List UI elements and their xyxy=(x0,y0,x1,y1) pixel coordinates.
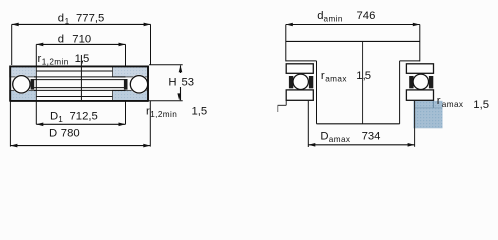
H witness line bottom xyxy=(148,100,182,102)
dimension d_amin line xyxy=(286,23,420,27)
left ball xyxy=(13,76,30,93)
top raceway line xyxy=(34,79,126,81)
shaft washer left (white) xyxy=(286,64,313,74)
dimension D_amax label xyxy=(320,131,380,145)
shoulder bottom line left xyxy=(286,60,317,62)
svg-text:amin: amin xyxy=(324,15,343,24)
svg-text:780: 780 xyxy=(61,128,80,140)
shaft column bottom line xyxy=(317,123,400,125)
housing fillet detail square (blue) xyxy=(413,101,442,129)
right ball xyxy=(130,76,147,93)
housing washer left (white) xyxy=(286,90,313,100)
svg-text:d: d xyxy=(58,13,64,25)
shaft column right edge xyxy=(399,61,401,124)
right cage bar xyxy=(124,79,128,90)
svg-text:53: 53 xyxy=(182,76,195,88)
cage bars left bearing xyxy=(289,76,293,88)
housing surface line under square xyxy=(415,107,443,109)
D extension line right xyxy=(149,101,151,147)
ball left bearing xyxy=(293,74,308,89)
bottom raceway line xyxy=(34,87,126,89)
svg-text:1,5: 1,5 xyxy=(473,99,489,111)
svg-text:1: 1 xyxy=(58,115,63,124)
svg-text:amax: amax xyxy=(325,75,347,84)
svg-text:1,2min: 1,2min xyxy=(42,58,69,67)
dimension d1 label xyxy=(58,13,104,27)
label r_amax 1,5 (bottom right) xyxy=(437,95,489,111)
svg-text:r: r xyxy=(437,95,441,107)
D1 extension line right lower xyxy=(125,101,127,124)
shaft washer right (white) xyxy=(406,64,433,74)
label r1,2min 1,5 (bottom right) xyxy=(146,105,207,119)
r1,2 leader line xyxy=(80,55,82,101)
d extension line right upper xyxy=(125,44,127,65)
dimension D1 label xyxy=(50,111,98,125)
housing boss edge right / D_amax extension xyxy=(414,101,416,147)
svg-text:1,5: 1,5 xyxy=(192,105,208,117)
svg-text:712,5: 712,5 xyxy=(70,111,98,123)
svg-text:D: D xyxy=(320,131,328,143)
svg-text:734: 734 xyxy=(362,131,381,143)
d/D1 extension line left (crosses bearing) xyxy=(35,44,37,124)
dimension D line xyxy=(10,144,150,148)
bearing outer edge left xyxy=(9,66,11,102)
d1 extension line left xyxy=(11,24,13,65)
dimension D label xyxy=(49,128,80,140)
housing step edge under square xyxy=(432,101,434,108)
left ball groove xyxy=(12,75,31,94)
left cage bar xyxy=(31,79,35,90)
dimension d_amin label xyxy=(317,10,375,24)
top washer shaded section right xyxy=(113,66,149,77)
bottom washer shaded section left xyxy=(10,90,37,101)
shaft shoulder top line xyxy=(286,40,420,42)
svg-text:5: 5 xyxy=(365,70,371,82)
svg-text:D: D xyxy=(49,128,57,140)
dimension d label xyxy=(58,33,91,45)
top washer inner line xyxy=(36,70,112,72)
top washer bottom face line xyxy=(34,76,126,78)
svg-text:amax: amax xyxy=(442,100,464,109)
d1 extension line right xyxy=(150,24,152,64)
washer bottom surface line xyxy=(10,100,149,102)
ball right bearing xyxy=(413,74,428,89)
label r1,2min 1,5 (top) xyxy=(38,53,90,67)
right ball groove xyxy=(129,75,148,94)
label r_amax 1,5 (top) xyxy=(321,70,371,84)
svg-text:H: H xyxy=(168,76,176,88)
svg-text:746: 746 xyxy=(357,10,376,22)
bottom washer inner line xyxy=(36,96,112,98)
dimension D_amax line xyxy=(308,143,414,147)
svg-text:5: 5 xyxy=(83,53,89,65)
shaft shoulder right edge xyxy=(419,25,421,62)
dimension d1 line xyxy=(12,23,151,27)
top washer shaded section left xyxy=(10,66,37,77)
washer top surface line xyxy=(10,65,149,67)
shaft shoulder left edge xyxy=(285,25,287,62)
svg-text:d: d xyxy=(58,33,64,45)
svg-text:D: D xyxy=(50,111,58,123)
housing boss edge left / D_amax extension xyxy=(307,101,309,147)
r_amax leader / centerline xyxy=(362,41,364,123)
svg-text:1,2min: 1,2min xyxy=(150,110,177,119)
housing washer right (white) xyxy=(406,90,433,100)
shaft column left edge xyxy=(316,61,318,124)
housing step left xyxy=(278,100,287,112)
bottom washer shaded section right xyxy=(113,90,149,101)
dimension d line xyxy=(36,43,125,47)
D extension line left xyxy=(9,102,11,147)
svg-text:amax: amax xyxy=(329,135,351,144)
label H 53 xyxy=(168,76,194,88)
bottom washer top face line xyxy=(34,89,126,91)
H witness line top xyxy=(149,64,183,66)
dimension D1 line xyxy=(36,123,125,127)
svg-text:777,5: 777,5 xyxy=(76,13,104,25)
H dimension line with arrows xyxy=(177,65,182,100)
bearing outer edge right xyxy=(147,66,149,102)
shoulder bottom line right xyxy=(400,60,420,62)
svg-text:710: 710 xyxy=(72,33,91,45)
cage bars right bearing xyxy=(409,76,413,88)
